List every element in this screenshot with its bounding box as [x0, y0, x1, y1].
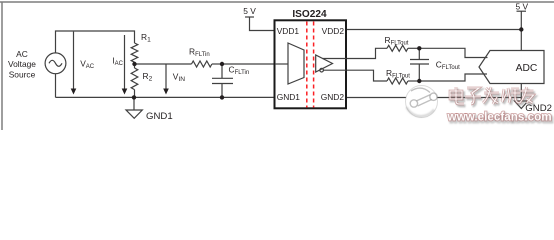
resistor R1 — [131, 43, 138, 62]
watermark characters (stylised strokes, shadow pass) — [452, 89, 536, 106]
wire RFLTin to node — [212, 63, 222, 65]
input wire inside IC — [275, 63, 288, 65]
out- lead — [323, 69, 346, 71]
AC source V1 — [45, 53, 66, 74]
modulator trapezoid — [288, 43, 304, 84]
junction node CFLTin top — [220, 62, 224, 66]
ground rail GND2 side — [347, 97, 522, 99]
ADC U2 pentagon — [479, 51, 544, 84]
svg-text:Source: Source — [9, 70, 36, 80]
arrowhead IAC — [122, 89, 128, 95]
junction node R1-R2-Vin — [132, 62, 136, 66]
logo inner dumbbell — [410, 88, 437, 107]
char you — [520, 87, 534, 103]
watermark logo: white disc occluding rail — [406, 86, 438, 118]
svg-text:GND2: GND2 — [321, 92, 345, 102]
page background — [0, 0, 554, 130]
wire R2 to ground rail — [134, 90, 136, 98]
arrowhead VAC — [71, 89, 77, 95]
svg-text:GND1: GND1 — [146, 111, 173, 122]
capacitor CFLTout — [418, 48, 420, 59]
output buffer triangle — [316, 55, 333, 72]
5V supply left: bar and stem — [245, 16, 254, 18]
ISO224 IC body U1 — [275, 20, 347, 108]
svg-text:VDD1: VDD1 — [277, 26, 300, 36]
arrow IAC — [124, 35, 126, 89]
wire R1 to node — [134, 62, 136, 68]
svg-text:5 V: 5 V — [243, 6, 256, 16]
wire source bottom — [55, 74, 57, 98]
watermark characters (white hollow core) — [450, 87, 534, 104]
wire to top node — [408, 47, 419, 49]
resistor RFLTout bottom — [387, 78, 408, 84]
svg-text:Voltage: Voltage — [8, 59, 36, 69]
isolation barrier dashed lines — [307, 22, 314, 108]
resistor RFLTout top — [387, 45, 408, 51]
capacitor CFLTin — [221, 64, 223, 78]
svg-text:ADC: ADC — [516, 63, 538, 74]
wire source top to R1 top — [56, 31, 135, 53]
arrow VIN — [165, 65, 167, 90]
svg-text:ISO224: ISO224 — [292, 9, 327, 20]
5V supply right: bar and stem — [517, 10, 527, 12]
wire 5V node down to ADC — [520, 30, 522, 51]
arrowhead VIN — [163, 89, 169, 95]
char dian — [450, 87, 464, 104]
arrow VAC — [73, 32, 75, 89]
watermark characters (pink outline pass) — [450, 87, 534, 104]
ground symbol GND1 — [133, 97, 135, 110]
out+ lead — [323, 58, 347, 60]
resistor R2 — [131, 68, 138, 90]
char fa — [483, 87, 499, 104]
svg-text:5 V: 5 V — [516, 2, 529, 12]
char zi — [465, 88, 481, 104]
inverting bubble — [320, 68, 324, 72]
svg-text:VDD2: VDD2 — [322, 26, 345, 36]
svg-text:AC: AC — [16, 49, 28, 59]
ground symbol GND2 — [515, 101, 529, 109]
junction node CFLTout bottom — [417, 79, 421, 83]
wire bottom node to ADC — [419, 74, 487, 81]
VDD2 rail to 5V node — [347, 29, 522, 31]
svg-text:GND2: GND2 — [525, 103, 552, 114]
wire ISO224 out- — [347, 70, 388, 81]
left border frame — [1, 2, 3, 130]
junction node CFLTin bottom — [220, 95, 224, 99]
resistor RFLTin — [192, 61, 212, 67]
wire top node to ADC — [419, 48, 487, 57]
junction node 5V right — [519, 27, 523, 31]
top border frame — [0, 1, 554, 3]
wire ISO224 out+ — [347, 48, 388, 58]
ground rail GND1 side — [56, 96, 275, 98]
wire to bottom node — [408, 80, 419, 82]
wire node to RFLTin — [135, 63, 192, 65]
junction node GND1 rail — [132, 95, 136, 99]
junction node CFLTout top — [417, 46, 421, 50]
svg-text:GND1: GND1 — [277, 92, 301, 102]
char shao — [502, 88, 520, 103]
sine wave inside source — [49, 60, 62, 66]
wire ADC bottom to ground — [520, 84, 522, 102]
wire node to ISO224 input — [222, 63, 288, 65]
